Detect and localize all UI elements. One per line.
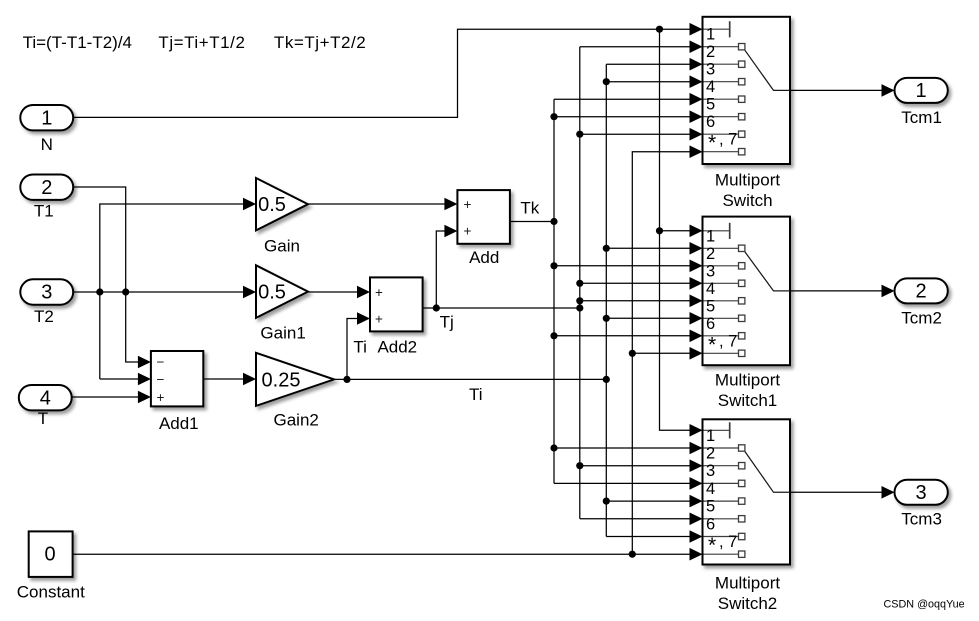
node Tj sw3 r3 (576, 462, 583, 469)
wire switch1 to outport Tcm2 (790, 290, 882, 292)
svg-text:0.25: 0.25 (262, 369, 301, 391)
node constant bus junction (629, 551, 636, 558)
outport 3 Tcm3 (895, 480, 948, 529)
svg-text:2: 2 (706, 245, 715, 263)
sum block Add2 (370, 277, 423, 356)
wire Tj to switch2 port 6 (580, 518, 690, 520)
U2 switch arm (745, 252, 790, 291)
svg-text:Switch1: Switch1 (718, 391, 778, 410)
svg-text:Add: Add (469, 248, 499, 267)
svg-text:5: 5 (706, 297, 715, 315)
wire Tk to switch1 port (554, 335, 690, 337)
U1 pin 6 (704, 116, 739, 118)
U1 pin *,7 (704, 133, 739, 135)
svg-text:+: + (375, 285, 383, 300)
node constant to switch1 (629, 350, 636, 357)
svg-text:Ti=(T-T1-T2)/4: Ti=(T-T1-T2)/4 (23, 33, 132, 52)
svg-text:0.5: 0.5 (258, 282, 286, 304)
svg-text:2: 2 (706, 445, 715, 463)
node Ti sw2 r6 (603, 315, 610, 322)
wire Ti up into Add2 input 2 (347, 319, 357, 380)
wire constant to Multiport Switch1 bottom port (632, 352, 689, 354)
svg-text:*: * (708, 534, 716, 557)
wire N to Multiport Switch1 control (660, 230, 690, 232)
node Tj sw1 r7 (576, 131, 583, 138)
wire Tj to switch2 port (580, 465, 690, 467)
wire Ti from Gain2 output (334, 378, 606, 380)
node Tj sw2 r5 (576, 297, 583, 304)
inport 4 (T) (19, 385, 72, 428)
svg-text:2: 2 (41, 177, 52, 199)
svg-text:5: 5 (706, 498, 715, 516)
svg-text:0: 0 (44, 544, 55, 566)
node Ti sw1 r4 (603, 78, 610, 85)
label Multiport Switch1 (715, 371, 780, 411)
node Ti branch to Add2 (343, 376, 350, 383)
U1 pin 3 (704, 63, 739, 65)
wire Gain1 to Add2 input 1 (308, 291, 357, 293)
svg-text:3: 3 (706, 462, 715, 480)
wire T2 from inport3 to Gain1 (73, 291, 243, 293)
node Ti bus junction (603, 376, 610, 383)
svg-text:Ti: Ti (353, 338, 367, 357)
svg-text:+: + (156, 390, 164, 405)
svg-text:, 7: , 7 (719, 332, 737, 350)
inport 3 (T2) (20, 279, 73, 326)
wire Tk to switch2 port 4 (554, 482, 690, 484)
U1 switch arm (745, 50, 790, 90)
wire Ti to switch port (606, 81, 689, 83)
wire Tj up into Add input 2 (436, 231, 444, 308)
label Multiport Switch (715, 171, 780, 211)
wire Tk from Add output (510, 221, 554, 223)
multiport switch U3 (703, 419, 791, 564)
wire Gain to Add input 1 (308, 203, 445, 205)
U3 pin 3 (704, 465, 739, 467)
wire T2 branch into Add1 input 2 (100, 378, 138, 380)
svg-text:3: 3 (41, 282, 52, 304)
U3 pin 5 (704, 500, 739, 502)
multiport switch U1 (703, 17, 791, 164)
sum block Add (457, 190, 510, 267)
svg-text:3: 3 (916, 482, 927, 504)
svg-text:N: N (41, 135, 53, 154)
svg-text:Switch2: Switch2 (718, 594, 778, 613)
svg-text:T2: T2 (34, 307, 54, 326)
U3 pin 4 (704, 482, 739, 484)
U3 control pin 1 (704, 429, 730, 431)
node T1 on T2 line (122, 288, 129, 295)
svg-text:Tj=Ti+T1/2: Tj=Ti+T1/2 (158, 33, 245, 52)
svg-text:Constant: Constant (17, 583, 85, 602)
svg-text:0.5: 0.5 (258, 194, 286, 216)
label Multiport Switch2 (715, 574, 780, 614)
wire T1 from inport2 down to Add1 input 1 (73, 187, 138, 362)
wire constant 0 to Multiport Switch2 port *,7 (73, 553, 690, 555)
U2 pin 6 (704, 317, 739, 319)
U3 switch arm (745, 452, 790, 493)
U3 pin *,7 (704, 536, 739, 538)
svg-text:, 7: , 7 (719, 131, 737, 149)
wire Ti to switch1 port (606, 247, 689, 249)
svg-text:2: 2 (706, 43, 715, 61)
svg-text:4: 4 (40, 387, 51, 409)
svg-text:Multiport: Multiport (715, 371, 780, 390)
U2 pin 3 (704, 265, 739, 267)
node Tj bus junction (576, 304, 583, 311)
svg-text:Gain2: Gain2 (274, 411, 319, 430)
svg-text:−: − (156, 355, 164, 370)
node Ti sw3 r5 (603, 498, 610, 505)
svg-text:Tcm3: Tcm3 (901, 510, 942, 529)
svg-text:Tj: Tj (440, 313, 454, 332)
inport 2 (T1) (20, 175, 73, 221)
U2 pin 4 (704, 282, 739, 284)
svg-text:2: 2 (916, 281, 927, 303)
wire Ti to switch port (606, 63, 689, 65)
svg-text:3: 3 (706, 262, 715, 280)
svg-text:6: 6 (706, 113, 715, 131)
svg-text:Gain: Gain (264, 236, 300, 255)
svg-text:, 7: , 7 (719, 533, 737, 551)
node Ti sw2 r2 (603, 245, 610, 252)
U1 pin 4 (704, 81, 739, 83)
wire Tj to switch port 2 (580, 46, 690, 48)
svg-text:Switch: Switch (722, 191, 772, 210)
svg-text:1: 1 (41, 107, 52, 129)
U1 pin 8 (704, 151, 739, 153)
svg-text:Tk=Tj+T2/2: Tk=Tj+T2/2 (274, 33, 366, 52)
wire Tk to switch1 port (554, 265, 690, 267)
svg-text:Tcm2: Tcm2 (901, 308, 942, 327)
wire Ti vertical bus (605, 64, 607, 536)
svg-text:6: 6 (706, 315, 715, 333)
U2 pin 8 (704, 352, 739, 354)
wire Add1 to Gain2 (203, 378, 243, 380)
wire N vertical bus (660, 29, 690, 430)
svg-text:+: + (463, 197, 471, 212)
svg-text:CSDN @oqqYue: CSDN @oqqYue (884, 598, 965, 610)
U2 pin *,7 (704, 335, 739, 337)
svg-text:6: 6 (706, 515, 715, 533)
node Tj branch to Add (433, 304, 440, 311)
svg-text:4: 4 (706, 280, 715, 298)
node Tk sw3 r2 (550, 444, 557, 451)
svg-text:Multiport: Multiport (715, 171, 780, 190)
svg-text:5: 5 (706, 96, 715, 114)
gain block Gain2 0.25 (256, 353, 334, 430)
annotation formula text (23, 33, 367, 52)
svg-text:−: − (156, 372, 164, 387)
node Tk bus junction (550, 218, 557, 225)
wire switch to outport Tcm1 (790, 89, 882, 91)
svg-text:Add2: Add2 (377, 338, 417, 357)
sum block Add1 (151, 351, 203, 433)
U2 control pin 1 (704, 230, 730, 232)
svg-text:Tcm1: Tcm1 (901, 108, 942, 127)
node N to switch1 control (656, 227, 663, 234)
U1 pin 2 (704, 46, 739, 48)
svg-text:3: 3 (706, 61, 715, 79)
U3 pin 2 (704, 447, 739, 449)
svg-text:Tk: Tk (520, 199, 539, 218)
node Tk sw1 r6 (550, 113, 557, 120)
U1 pin 5 (704, 98, 739, 100)
wire Ti to switch1 port (606, 317, 689, 319)
gain block Gain1 0.5 (256, 265, 308, 342)
svg-text:1: 1 (706, 227, 715, 245)
wire Tj to switch port *,7 (580, 133, 690, 135)
wire Tk to switch port 5 (554, 98, 690, 100)
svg-text:Ti: Ti (469, 385, 483, 404)
svg-text:1: 1 (916, 80, 927, 102)
node Tj sw2 r4 (576, 280, 583, 287)
wire Tj to switch1 port (580, 282, 690, 284)
U3 pin 8 (704, 553, 739, 555)
svg-text:Add1: Add1 (159, 414, 199, 433)
constant block (0) (17, 531, 85, 601)
wire T from inport4 to Add1 input 3 (72, 396, 138, 398)
svg-text:T1: T1 (34, 202, 54, 221)
svg-text:1: 1 (706, 427, 715, 445)
multiport switch U2 (703, 217, 791, 366)
wire constant vertical bus (632, 152, 689, 555)
svg-text:T: T (38, 409, 48, 428)
svg-text:4: 4 (706, 480, 715, 498)
U1 control pin 1 (704, 28, 730, 30)
gain block Gain 0.5 (256, 178, 308, 255)
node Tk sw2 r3 (550, 262, 557, 269)
wire Tk vertical bus (553, 99, 555, 483)
wire Tj to switch1 port (580, 300, 690, 302)
svg-text:4: 4 (706, 78, 715, 96)
wire Ti to switch2 port 7 (606, 536, 689, 538)
wire Tk to switch port 6 (554, 116, 690, 118)
svg-text:1: 1 (706, 26, 715, 44)
svg-text:+: + (375, 312, 383, 327)
wire Ti to switch2 port (606, 500, 689, 502)
node T2 branch (96, 288, 103, 295)
inport 1 (N) (20, 105, 73, 154)
U3 pin 6 (704, 518, 739, 520)
node N branch junction (656, 26, 663, 33)
wire Tk to switch2 port (554, 447, 690, 449)
wire N from inport1 to Multiport Switch control (73, 29, 690, 117)
wire Tj vertical bus (579, 47, 581, 519)
svg-text:Multiport: Multiport (715, 574, 780, 593)
U2 pin 5 (704, 300, 739, 302)
svg-text:+: + (463, 224, 471, 239)
wire T2 branch up to Gain and down to Add1 input 2 (100, 204, 243, 379)
svg-text:Gain1: Gain1 (260, 324, 305, 343)
outport 2 Tcm2 (895, 278, 948, 327)
wire switch2 to outport Tcm3 (790, 491, 882, 493)
U2 pin 2 (704, 247, 739, 249)
outport 1 Tcm1 (895, 78, 948, 127)
node Tk sw2 r7 (550, 332, 557, 339)
wire Tj from Add2 output (423, 307, 580, 309)
